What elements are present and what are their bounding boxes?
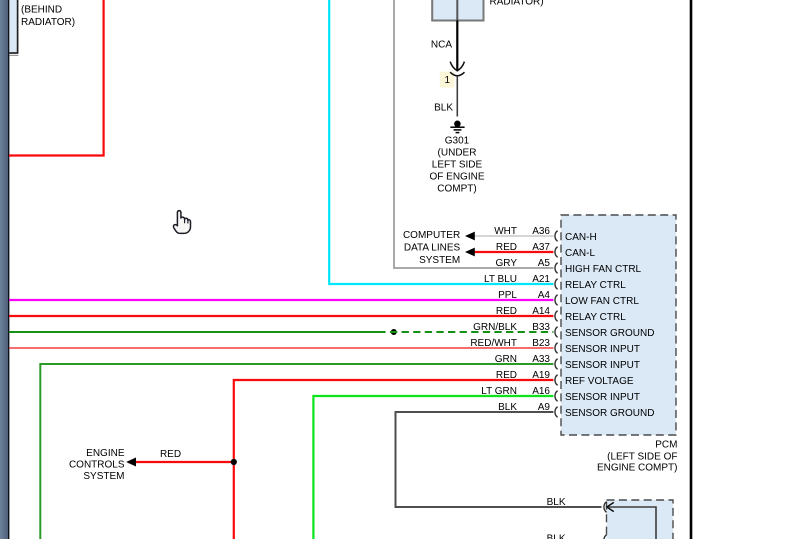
wire LT BLU A21 bbox=[329, 0, 553, 284]
wire NCA (black) bbox=[456, 21, 458, 71]
second pin socket arc (bottom edge) bbox=[604, 535, 607, 539]
wire GRN A33 bbox=[40, 364, 553, 539]
svg-text:REF VOLTAGE: REF VOLTAGE bbox=[565, 376, 634, 387]
svg-text:GRN/BLK: GRN/BLK bbox=[473, 322, 517, 333]
svg-text:SENSOR INPUT: SENSOR INPUT bbox=[565, 392, 640, 403]
svg-text:COMPT): COMPT) bbox=[437, 184, 476, 195]
svg-text:LEFT SIDE: LEFT SIDE bbox=[432, 160, 483, 171]
svg-text:(LEFT SIDE OF: (LEFT SIDE OF bbox=[607, 451, 677, 462]
svg-text:RED: RED bbox=[496, 242, 517, 253]
svg-text:(BEHIND: (BEHIND bbox=[21, 5, 62, 16]
label (BEHIND RADIATOR) bbox=[21, 5, 75, 29]
wire color labels bbox=[470, 226, 517, 413]
pin socket arc C2 bbox=[604, 502, 607, 513]
svg-text:GRY: GRY bbox=[496, 258, 518, 269]
svg-text:HIGH FAN CTRL: HIGH FAN CTRL bbox=[565, 264, 642, 275]
svg-text:G301: G301 bbox=[445, 136, 470, 147]
svg-text:CAN-L: CAN-L bbox=[565, 248, 595, 259]
svg-text:RED: RED bbox=[496, 370, 517, 381]
ground G301 bbox=[450, 121, 464, 133]
label G301 (UNDER LEFT SIDE OF ENGINE COMPT) bbox=[429, 136, 484, 195]
svg-text:B23: B23 bbox=[532, 338, 550, 349]
svg-text:A16: A16 bbox=[532, 386, 550, 397]
svg-text:WHT: WHT bbox=[494, 226, 517, 237]
svg-text:BLK: BLK bbox=[547, 534, 566, 539]
svg-text:B33: B33 bbox=[532, 322, 550, 333]
inline connector pin 1 (male arrow / female socket) bbox=[450, 62, 464, 76]
svg-text:A4: A4 bbox=[538, 290, 551, 301]
label COMPUTER DATA LINES SYSTEM bbox=[403, 230, 461, 266]
junction dot bbox=[391, 329, 397, 335]
svg-text:1: 1 bbox=[445, 75, 451, 86]
arrow to engine controls system bbox=[126, 458, 136, 467]
svg-text:ENGINE: ENGINE bbox=[86, 448, 125, 459]
svg-text:LT BLU: LT BLU bbox=[484, 274, 517, 285]
label ENGINE CONTROLS SYSTEM bbox=[69, 448, 125, 482]
wire LT GRN A16 bbox=[313, 396, 553, 539]
svg-text:OF ENGINE: OF ENGINE bbox=[429, 172, 484, 183]
junction dot bbox=[231, 459, 237, 465]
component box radiator fan (top center, partial) bbox=[432, 0, 483, 21]
wire RED A19 bbox=[234, 380, 554, 539]
svg-text:SENSOR INPUT: SENSOR INPUT bbox=[565, 344, 640, 355]
wire RED/WHT B23 bbox=[9, 347, 553, 349]
wire BLK to ground bbox=[456, 76, 458, 116]
arrowhead inside C2 bbox=[607, 502, 614, 511]
pin socket arcs bbox=[555, 231, 558, 418]
svg-text:A21: A21 bbox=[532, 274, 550, 285]
svg-text:A9: A9 bbox=[538, 402, 551, 413]
svg-text:CAN-H: CAN-H bbox=[565, 232, 597, 243]
svg-text:BLK: BLK bbox=[434, 103, 453, 114]
svg-text:SYSTEM: SYSTEM bbox=[419, 255, 460, 266]
svg-text:COMPUTER: COMPUTER bbox=[403, 230, 460, 241]
svg-text:A36: A36 bbox=[532, 226, 550, 237]
arrow CAN-L bbox=[465, 248, 475, 257]
svg-text:A37: A37 bbox=[532, 242, 550, 253]
schematic page border line bbox=[690, 0, 693, 539]
svg-text:ENGINE COMPT): ENGINE COMPT) bbox=[597, 463, 678, 474]
svg-text:RED: RED bbox=[496, 306, 517, 317]
mouse cursor (hand pointer) bbox=[173, 211, 190, 234]
svg-text:RADIATOR): RADIATOR) bbox=[490, 0, 544, 8]
svg-text:SYSTEM: SYSTEM bbox=[83, 471, 124, 482]
pin labels bbox=[532, 226, 550, 413]
wire WHT CAN-H bbox=[475, 235, 554, 237]
svg-text:RED: RED bbox=[160, 449, 181, 460]
pin function labels bbox=[565, 232, 654, 419]
svg-text:PCM: PCM bbox=[655, 440, 677, 451]
svg-text:A33: A33 bbox=[532, 354, 550, 365]
svg-text:RELAY CTRL: RELAY CTRL bbox=[565, 312, 626, 323]
PCM connector box bbox=[561, 215, 676, 435]
wire RED CAN-L bbox=[475, 251, 554, 253]
svg-text:GRN: GRN bbox=[495, 354, 517, 365]
svg-text:LOW FAN CTRL: LOW FAN CTRL bbox=[565, 296, 639, 307]
svg-text:SENSOR GROUND: SENSOR GROUND bbox=[565, 408, 654, 419]
svg-text:BLK: BLK bbox=[547, 497, 566, 508]
svg-text:RELAY CTRL: RELAY CTRL bbox=[565, 280, 626, 291]
svg-text:RED/WHT: RED/WHT bbox=[470, 338, 517, 349]
label PCM (LEFT SIDE OF ENGINE COMPT) bbox=[597, 440, 678, 474]
svg-text:PPL: PPL bbox=[498, 290, 517, 301]
wire RED from top-left component bbox=[9, 0, 104, 156]
arrow CAN-H bbox=[465, 232, 475, 241]
svg-text:DATA LINES: DATA LINES bbox=[404, 243, 461, 254]
wire PPL A4 bbox=[9, 299, 553, 301]
connector box C2 (bottom right) bbox=[607, 500, 674, 539]
search highlight bbox=[440, 72, 454, 88]
component box (top left, partial, behind radiator) bbox=[9, 0, 18, 55]
svg-text:BLK: BLK bbox=[498, 402, 517, 413]
svg-text:CONTROLS: CONTROLS bbox=[69, 460, 125, 471]
wire inside C2 bbox=[607, 507, 656, 539]
svg-text:A19: A19 bbox=[532, 370, 550, 381]
wire RED branch to engine controls bbox=[128, 461, 234, 463]
svg-text:A14: A14 bbox=[532, 306, 550, 317]
svg-text:NCA: NCA bbox=[431, 40, 452, 51]
wire GRY A5 bbox=[394, 0, 553, 268]
left panel splitter bar bbox=[0, 0, 9, 539]
svg-text:SENSOR GROUND: SENSOR GROUND bbox=[565, 328, 654, 339]
wire GRN/BLK B33 (dashed part) bbox=[390, 331, 553, 333]
wire BLK A9 bbox=[396, 412, 602, 507]
svg-text:SENSOR INPUT: SENSOR INPUT bbox=[565, 360, 640, 371]
wire inside fan box bbox=[456, 0, 458, 21]
svg-text:RADIATOR): RADIATOR) bbox=[21, 17, 75, 28]
svg-text:(UNDER: (UNDER bbox=[438, 148, 477, 159]
svg-text:A5: A5 bbox=[538, 258, 551, 269]
svg-text:LT GRN: LT GRN bbox=[481, 386, 517, 397]
wire GRN/BLK B33 (solid part) bbox=[9, 331, 386, 333]
wire RED A14 bbox=[9, 315, 553, 317]
